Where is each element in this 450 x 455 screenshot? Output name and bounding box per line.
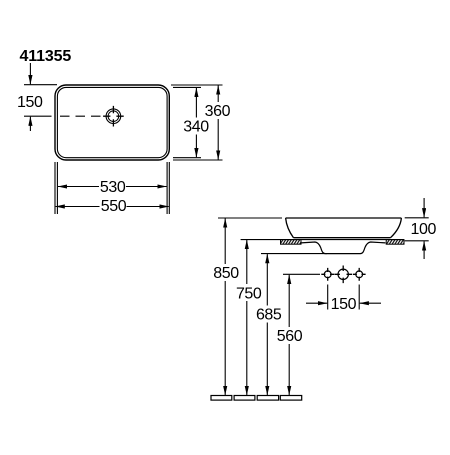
svg-text:530: 530 — [100, 179, 126, 196]
svg-text:411355: 411355 — [20, 48, 72, 65]
dimension 560 (faucet hole height above floor) — [288, 275, 290, 395]
dimension 150 (faucet hole spacing) — [306, 285, 381, 310]
dimension 750 (counter height above floor) — [241, 240, 281, 396]
plan view inner outline — [57, 87, 167, 157]
svg-text:340: 340 — [183, 119, 209, 136]
dimension 685 (bowl underside height above floor) — [261, 254, 327, 395]
dimension 340 (plan view right inner) — [173, 87, 201, 157]
floor line segment 4 — [280, 396, 301, 401]
plan view dashed centerline — [60, 115, 103, 117]
faucet hole center (cross circle) — [334, 266, 352, 284]
dimension 360 (plan view right outer) — [171, 85, 223, 160]
plan view outer outline — [55, 85, 169, 160]
svg-text:550: 550 — [101, 198, 127, 215]
dimension 100 (front view right) — [405, 198, 429, 259]
countertop cross-section hatch right — [386, 240, 404, 245]
floor line segment 3 — [257, 396, 278, 401]
front view bowl underside through counter cutout — [301, 242, 385, 254]
countertop cross-section hatch left — [281, 240, 302, 245]
dimension 150 (plan view left) — [24, 63, 57, 131]
dimension 530 (plan view bottom inner) — [57, 162, 167, 214]
front view basin rim and bowl — [286, 218, 402, 238]
svg-text:360: 360 — [205, 103, 231, 120]
dimension 850 (rim height above floor) — [218, 218, 282, 395]
svg-text:150: 150 — [331, 296, 357, 313]
drain hole symbol (double circle with crosshair) — [103, 106, 124, 127]
svg-text:150: 150 — [17, 94, 43, 111]
svg-text:560: 560 — [277, 328, 303, 345]
faucet hole left (cross circle) — [321, 268, 334, 281]
svg-text:850: 850 — [213, 265, 239, 282]
svg-text:100: 100 — [411, 221, 437, 238]
floor line segment 1 — [211, 396, 232, 401]
floor line segment 2 — [234, 396, 255, 401]
countertop surface line — [241, 239, 404, 241]
svg-text:685: 685 — [256, 307, 282, 324]
faucet mounting holes centerline (560 extension) — [283, 273, 320, 275]
dimension 550 (plan view bottom outer) — [55, 162, 169, 214]
svg-text:750: 750 — [236, 285, 262, 302]
faucet hole right (cross circle) — [353, 268, 366, 281]
